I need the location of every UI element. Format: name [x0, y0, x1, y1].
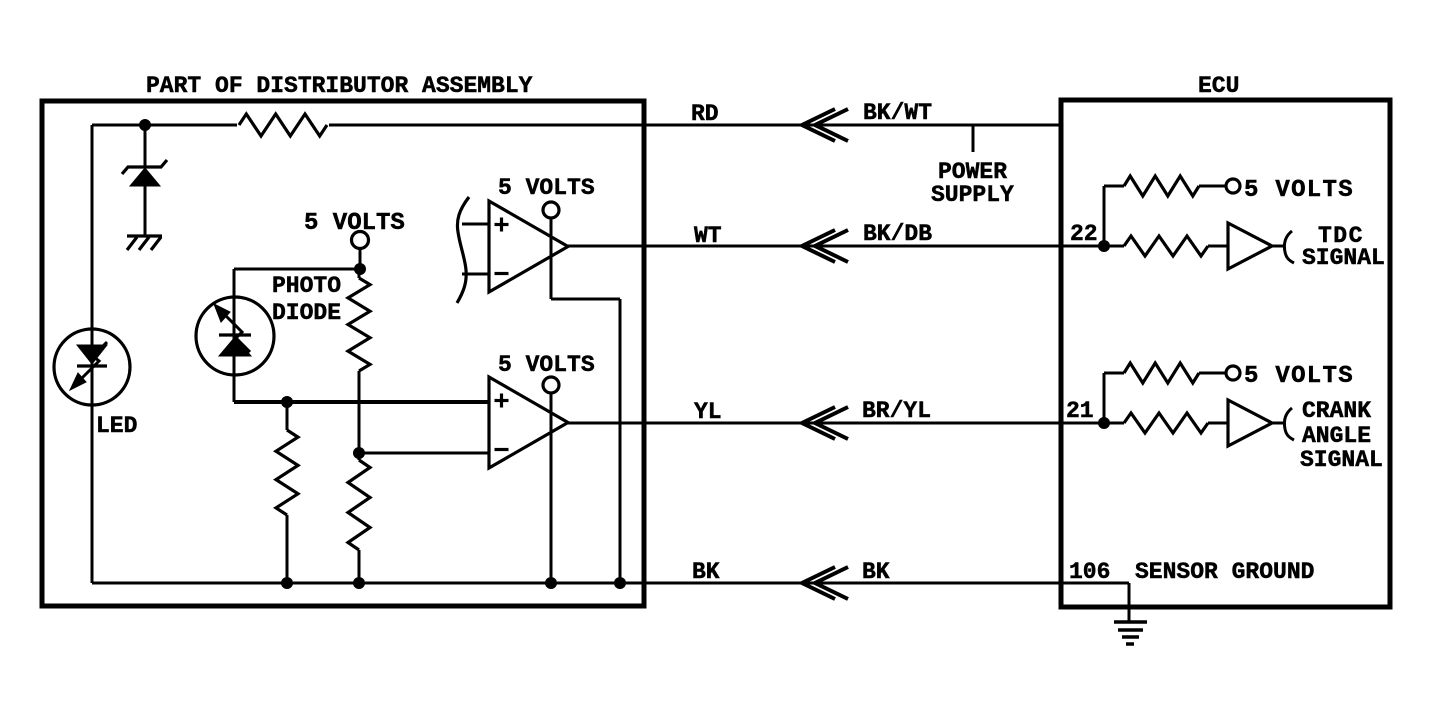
svg-text:CRANK: CRANK [1302, 398, 1371, 424]
svg-text:BR/YL: BR/YL [862, 398, 931, 424]
svg-text:SIGNAL: SIGNAL [1300, 447, 1383, 473]
svg-text:SENSOR GROUND: SENSOR GROUND [1135, 559, 1314, 585]
svg-text:BK/DB: BK/DB [863, 221, 932, 247]
svg-text:5 VOLTS: 5 VOLTS [304, 210, 405, 237]
svg-text:BK: BK [862, 559, 890, 585]
svg-text:PHOTO: PHOTO [272, 273, 341, 299]
svg-text:PART OF DISTRIBUTOR ASSEMBLY: PART OF DISTRIBUTOR ASSEMBLY [146, 73, 533, 99]
svg-text:BK: BK [692, 559, 720, 585]
svg-text:5 VOLTS: 5 VOLTS [1244, 363, 1354, 390]
svg-text:SUPPLY: SUPPLY [931, 182, 1014, 208]
svg-text:ANGLE: ANGLE [1302, 423, 1371, 449]
svg-text:5 VOLTS: 5 VOLTS [498, 175, 595, 201]
svg-text:YL: YL [694, 399, 722, 425]
svg-text:106: 106 [1069, 559, 1110, 585]
svg-text:ECU: ECU [1198, 73, 1239, 99]
svg-text:5 VOLTS: 5 VOLTS [498, 352, 595, 378]
svg-text:22: 22 [1070, 221, 1098, 247]
svg-text:SIGNAL: SIGNAL [1302, 245, 1385, 271]
svg-text:LED: LED [96, 413, 137, 439]
svg-text:RD: RD [691, 101, 719, 127]
svg-text:5 VOLTS: 5 VOLTS [1244, 177, 1354, 204]
svg-text:DIODE: DIODE [272, 300, 341, 326]
svg-text:BK/WT: BK/WT [863, 100, 932, 126]
svg-text:21: 21 [1066, 398, 1094, 424]
svg-text:WT: WT [694, 223, 722, 249]
